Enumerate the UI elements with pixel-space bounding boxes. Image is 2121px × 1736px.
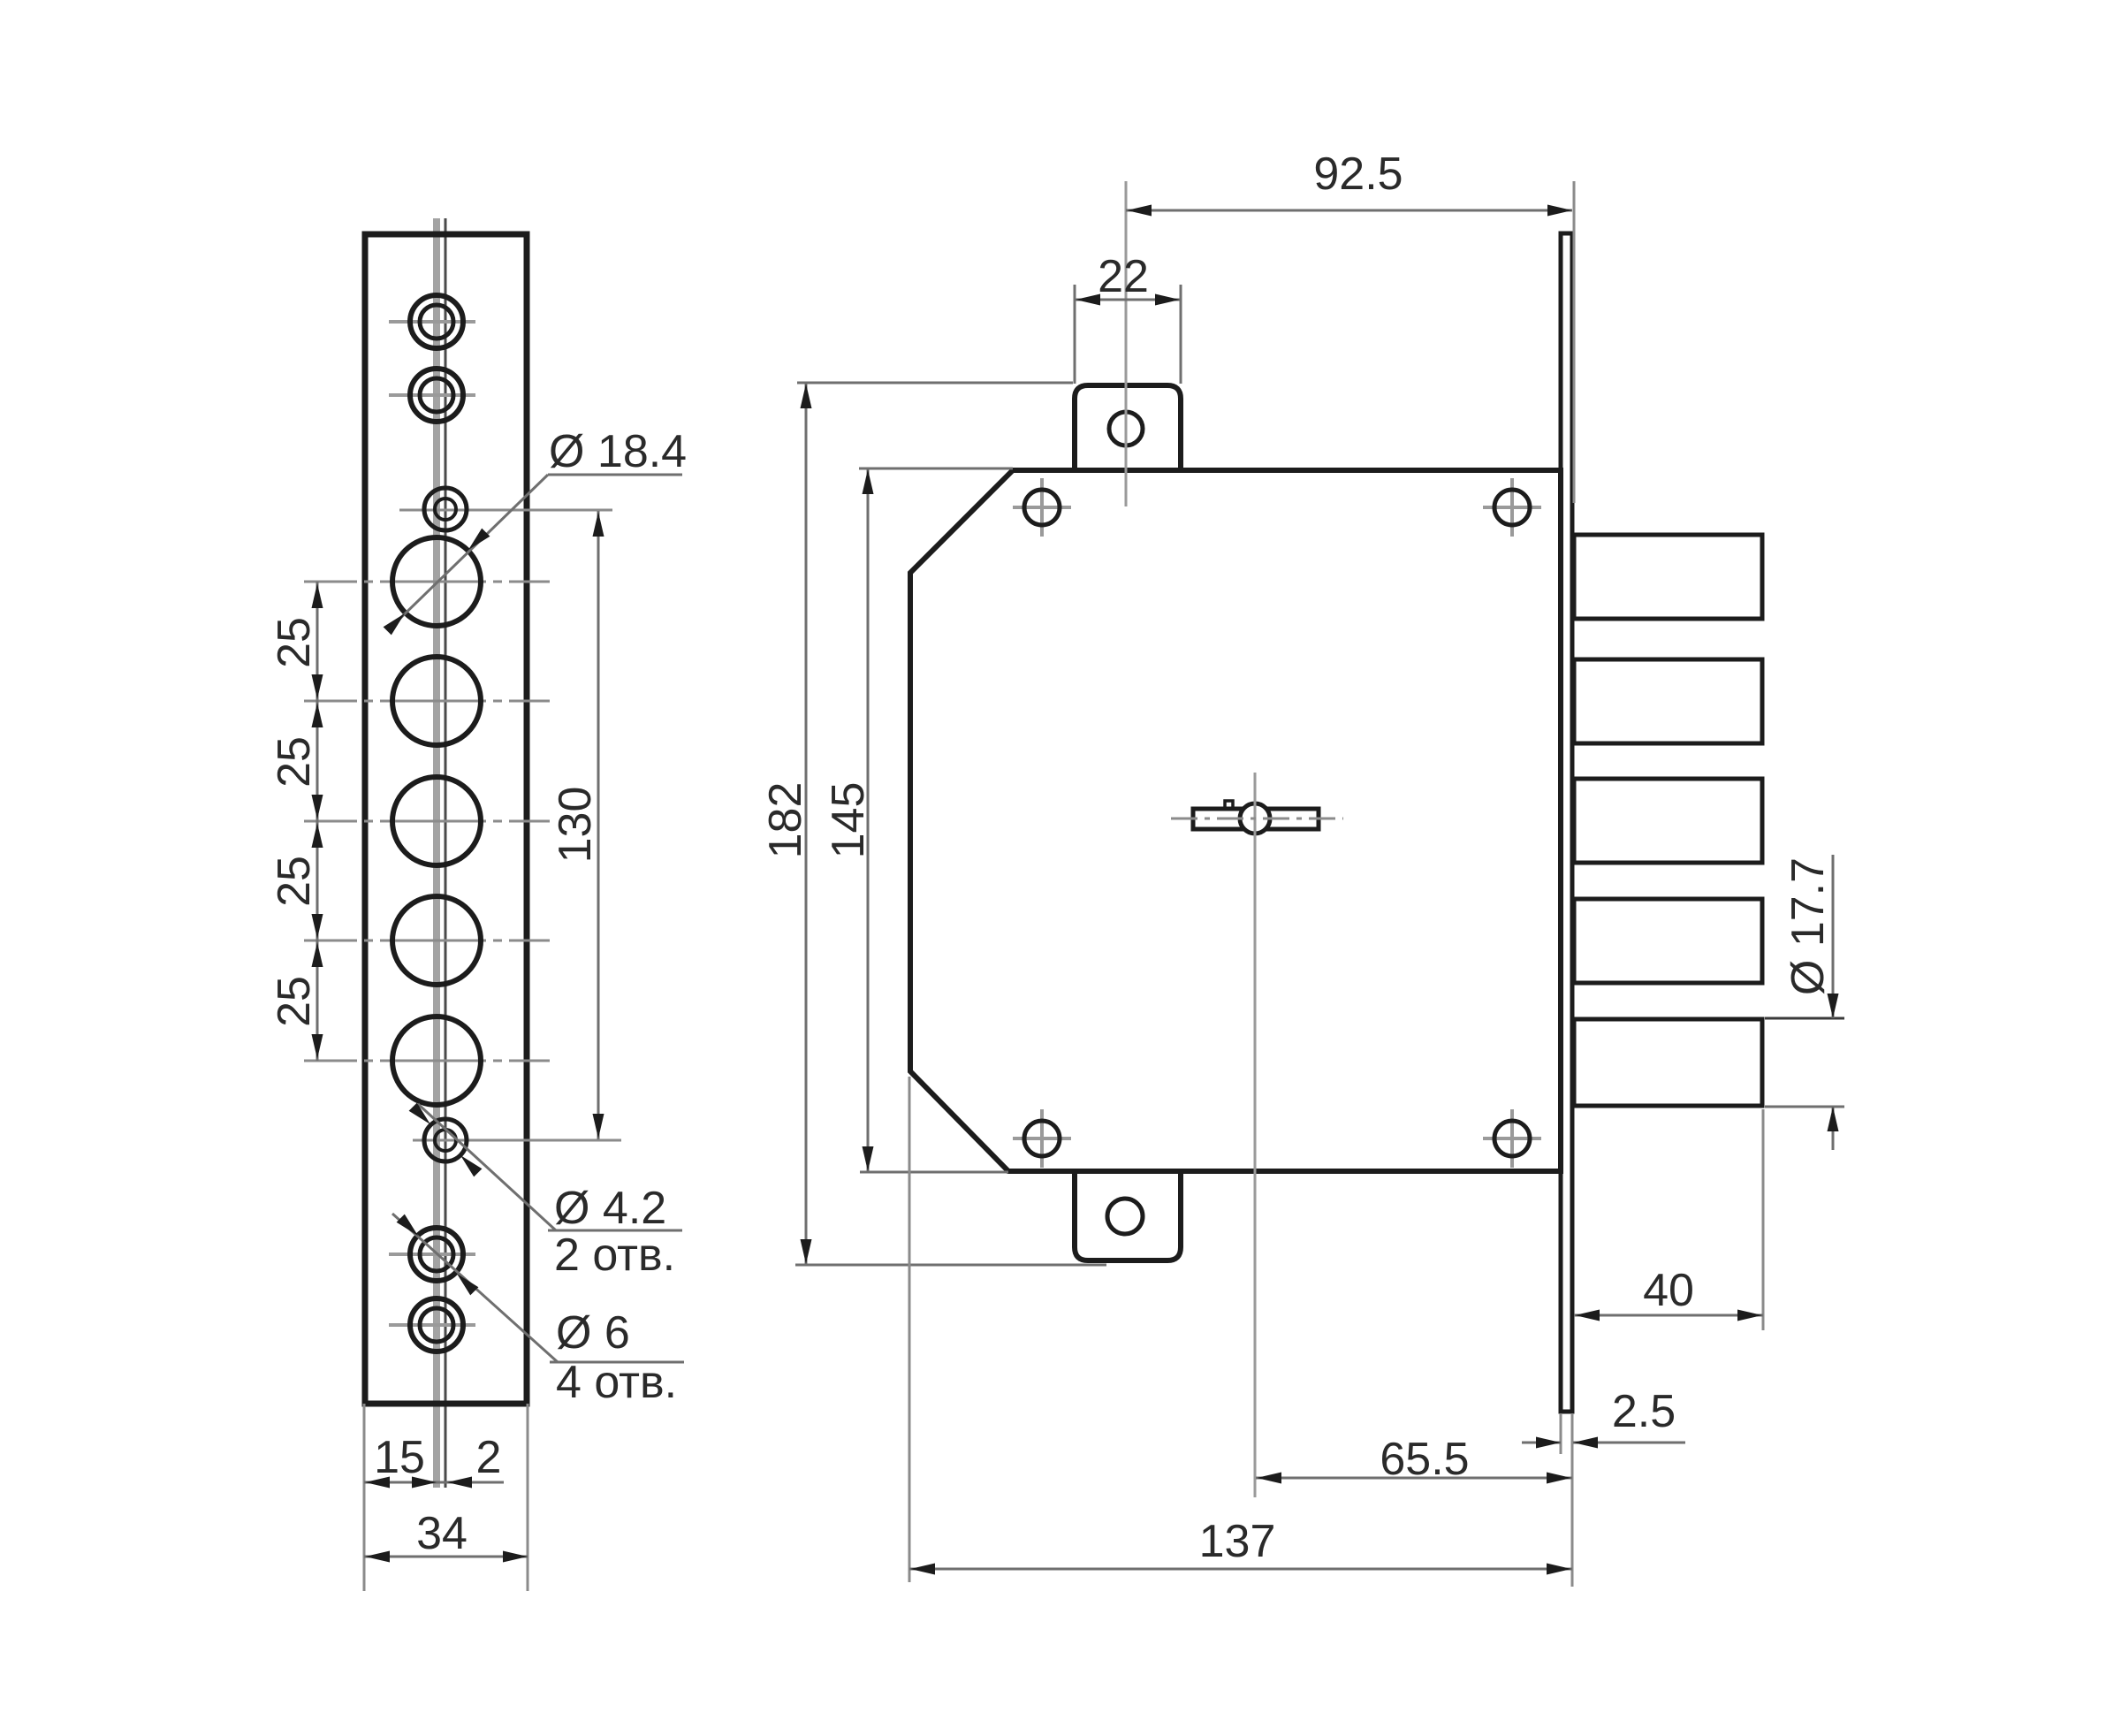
- svg-text:34: 34: [416, 1508, 468, 1559]
- svg-text:65.5: 65.5: [1380, 1434, 1469, 1485]
- svg-text:22: 22: [1098, 251, 1149, 302]
- svg-text:25: 25: [269, 976, 320, 1027]
- svg-text:25: 25: [269, 736, 320, 788]
- svg-text:Ø 17.7: Ø 17.7: [1783, 857, 1834, 995]
- svg-text:Ø 18.4: Ø 18.4: [549, 426, 687, 477]
- svg-text:Ø 4.2: Ø 4.2: [554, 1183, 666, 1234]
- svg-text:25: 25: [269, 617, 320, 668]
- svg-text:92.5: 92.5: [1313, 148, 1403, 200]
- svg-text:15: 15: [374, 1432, 425, 1483]
- svg-text:130: 130: [550, 787, 601, 864]
- svg-text:137: 137: [1199, 1516, 1276, 1567]
- svg-text:182: 182: [760, 782, 811, 859]
- svg-text:2: 2: [476, 1432, 502, 1483]
- svg-text:145: 145: [823, 782, 874, 859]
- svg-text:Ø 6: Ø 6: [556, 1307, 630, 1359]
- svg-text:2 отв.: 2 отв.: [554, 1230, 675, 1281]
- svg-text:25: 25: [269, 856, 320, 907]
- svg-text:4 отв.: 4 отв.: [556, 1357, 677, 1408]
- svg-text:40: 40: [1643, 1265, 1694, 1316]
- svg-text:2.5: 2.5: [1612, 1386, 1676, 1437]
